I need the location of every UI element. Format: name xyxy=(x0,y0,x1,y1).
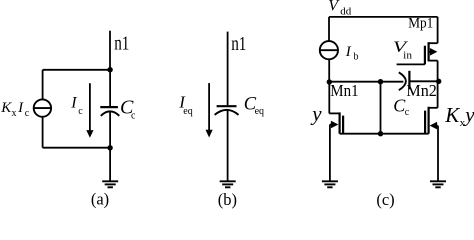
svg-text:Mn2: Mn2 xyxy=(406,81,437,100)
svg-text:K: K xyxy=(444,103,460,127)
svg-text:in: in xyxy=(403,50,412,62)
svg-text:Mp1: Mp1 xyxy=(408,16,433,32)
svg-text:c: c xyxy=(131,111,136,122)
svg-text:c: c xyxy=(405,107,410,118)
svg-text:I: I xyxy=(345,44,352,60)
svg-text:(b): (b) xyxy=(218,190,237,209)
svg-text:b: b xyxy=(354,51,359,62)
svg-text:Mn1: Mn1 xyxy=(330,81,358,100)
svg-text:x: x xyxy=(12,108,17,119)
svg-text:c: c xyxy=(78,106,83,117)
svg-text:I: I xyxy=(70,95,77,112)
svg-text:V: V xyxy=(328,0,340,15)
svg-text:n1: n1 xyxy=(231,33,246,55)
svg-text:y: y xyxy=(463,102,474,126)
svg-text:c: c xyxy=(25,108,30,119)
svg-text:(a): (a) xyxy=(91,190,109,209)
svg-text:(c): (c) xyxy=(376,190,394,209)
svg-text:n1: n1 xyxy=(114,33,129,55)
svg-text:I: I xyxy=(17,100,24,116)
svg-text:y: y xyxy=(310,102,322,126)
svg-text:dd: dd xyxy=(340,6,352,18)
svg-text:eq: eq xyxy=(183,106,192,117)
svg-text:eq: eq xyxy=(255,106,264,117)
svg-text:K: K xyxy=(0,100,12,116)
